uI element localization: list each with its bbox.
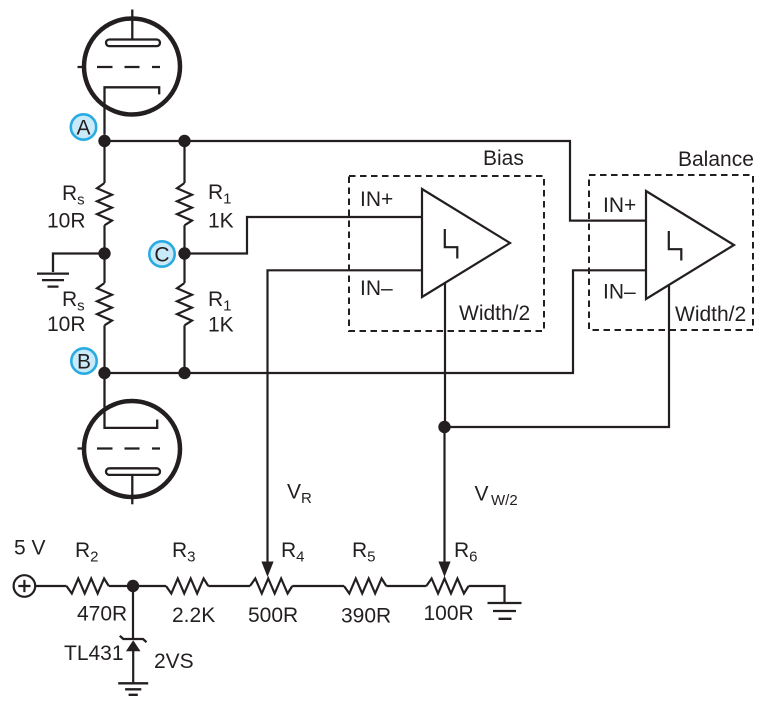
resistor R2 [67, 579, 109, 594]
svg-text:2.2K: 2.2K [172, 604, 215, 627]
wire 5V source to R2 [35, 585, 66, 587]
junction node dot [438, 421, 450, 433]
svg-text:Rs: Rs [62, 182, 85, 209]
svg-text:Width/2: Width/2 [675, 303, 746, 326]
5V source terminal [14, 575, 36, 597]
resistor Rs upper [97, 183, 112, 225]
ground node dot (Rs midpoint) [98, 247, 110, 259]
node A dot [98, 135, 110, 147]
svg-text:B: B [77, 350, 91, 373]
svg-text:R1: R1 [208, 288, 232, 315]
wire R2 to R3 [109, 585, 166, 587]
wire node A to R1 upper [183, 141, 185, 183]
wire Bias IN- to VR tap on R4 [268, 270, 423, 562]
wire node C to Bias IN+ [185, 217, 423, 254]
svg-text:390R: 390R [341, 605, 391, 628]
node B dot [98, 367, 110, 379]
svg-text:1K: 1K [208, 314, 234, 337]
wire R1 lower to node B [183, 325, 185, 373]
wire junction to R6 wiper VW/2 [443, 427, 445, 562]
wire R5 to R6 [386, 585, 426, 587]
node dot TL431 tap [127, 580, 139, 592]
wire Rs upper to ground node [103, 225, 105, 253]
svg-text:Width/2: Width/2 [459, 302, 530, 325]
node B label [71, 348, 96, 373]
svg-text:TL431: TL431 [64, 642, 124, 665]
resistor R1 lower [177, 283, 192, 325]
svg-text:R4: R4 [281, 539, 305, 566]
svg-text:A: A [76, 116, 90, 139]
wire node A row to Balance IN+ [105, 141, 647, 221]
ground (right of R6) [488, 603, 522, 619]
node B dot right [178, 367, 190, 379]
svg-text:470R: 470R [77, 603, 127, 626]
svg-text:IN–: IN– [360, 277, 393, 300]
arrowhead VR at R4 wiper [261, 562, 273, 578]
ground (Rs midpoint) [37, 254, 105, 287]
op-amp comparator U1 Bias [422, 189, 510, 297]
op-amp comparator U2 Balance [646, 191, 734, 299]
svg-text:Rs: Rs [62, 288, 85, 315]
wire R1 upper to node C [183, 225, 185, 253]
resistor Rs lower [97, 283, 112, 325]
svg-text:Bias: Bias [483, 147, 524, 170]
svg-text:1K: 1K [208, 210, 234, 233]
resistor R5 [344, 579, 386, 594]
node C dot [178, 247, 190, 259]
wire Bias output down [444, 282, 446, 427]
svg-text:R2: R2 [75, 539, 99, 566]
svg-text:VR: VR [287, 480, 312, 507]
wire node C to R1 lower [183, 254, 185, 284]
node A label [71, 114, 96, 139]
svg-text:R3: R3 [172, 539, 196, 566]
vacuum tube (lower) [78, 379, 181, 504]
Balance comparator dashed box [589, 175, 753, 330]
svg-text:VW/2: VW/2 [475, 483, 518, 510]
wire Rs lower to node B [103, 325, 105, 373]
svg-text:IN–: IN– [603, 281, 636, 304]
svg-text:500R: 500R [248, 604, 298, 627]
wire TL431 branch [132, 586, 134, 639]
svg-text:2VS: 2VS [154, 650, 194, 673]
node C label [149, 241, 174, 266]
vacuum tube (upper) [78, 10, 181, 135]
svg-text:C: C [154, 243, 169, 266]
svg-text:R5: R5 [352, 539, 376, 566]
resistor R3 [166, 579, 208, 594]
resistor R1 upper [177, 183, 192, 225]
wire R4 to R5 [292, 585, 344, 587]
arrowhead VW/2 at R6 wiper [438, 562, 450, 578]
wire junction to Balance output [445, 284, 670, 427]
svg-text:100R: 100R [424, 602, 474, 625]
potentiometer R6 [426, 579, 468, 594]
svg-text:10R: 10R [47, 210, 86, 233]
node A dot right [178, 135, 190, 147]
svg-text:IN+: IN+ [360, 188, 393, 211]
svg-text:Balance: Balance [678, 148, 754, 171]
Bias comparator dashed box [349, 176, 544, 331]
wire TL431 to ground [132, 651, 134, 683]
svg-text:10R: 10R [47, 313, 86, 336]
wire ground node to Rs lower [103, 254, 105, 284]
wire R6 to ground [469, 586, 505, 602]
svg-text:R6: R6 [454, 539, 478, 566]
svg-text:5 V: 5 V [14, 537, 46, 560]
zener diode TL431 [120, 636, 147, 652]
wire node A to Rs upper [103, 141, 105, 183]
wire node B row to Balance IN- [105, 270, 647, 373]
svg-text:R1: R1 [208, 181, 232, 208]
ground (below TL431) [118, 683, 148, 695]
potentiometer R4 [250, 579, 292, 594]
wire R3 to R4 [208, 585, 250, 587]
svg-text:IN+: IN+ [603, 194, 636, 217]
